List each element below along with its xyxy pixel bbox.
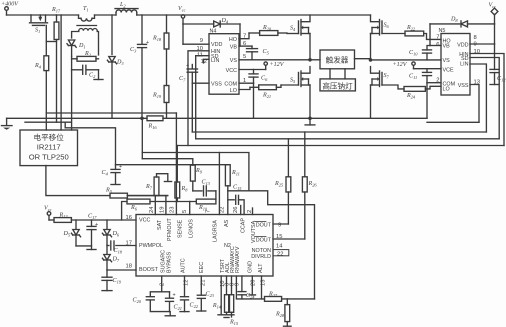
svg-text:C2: C2 (89, 73, 96, 80)
capacitor C17 (87, 214, 98, 250)
resistor R9 (190, 159, 202, 191)
wire VCE N5 (414, 68, 442, 70)
wire VSS N5 (470, 85, 479, 123)
svg-text:14: 14 (276, 244, 283, 250)
pin labels N2 top (157, 218, 257, 243)
capacitor C2 (72, 56, 99, 79)
svg-text:R9: R9 (195, 168, 203, 175)
wire VCC N4 (239, 69, 266, 71)
resistor R15 (229, 276, 239, 326)
resistor R26 riser (304, 132, 306, 177)
resistor R11 (225, 165, 239, 215)
wire S1 gate chain (45, 25, 47, 55)
svg-text:6: 6 (436, 42, 439, 48)
node +400V input (1, 2, 19, 16)
wire COM N5 (427, 83, 441, 119)
resistor R19 (152, 86, 169, 119)
svg-text:C21: C21 (174, 305, 182, 312)
transistor S7 (371, 67, 390, 87)
svg-text:24: 24 (149, 206, 155, 213)
svg-text:VS: VS (230, 58, 238, 64)
svg-text:C7: C7 (179, 76, 186, 83)
transformer T1 (72, 6, 99, 55)
wire pin2 down (150, 276, 161, 296)
resistor R27 (265, 292, 315, 302)
svg-text:R26: R26 (308, 181, 318, 188)
wire R9 line (142, 118, 193, 158)
wire SD N5 (470, 58, 499, 139)
bus com rail (427, 121, 479, 123)
svg-text:S1: S1 (35, 28, 40, 35)
svg-text:VOUTSA: VOUTSA (251, 220, 257, 243)
wire R5 to pin19 (127, 196, 167, 215)
svg-text:LIN: LIN (211, 58, 219, 64)
wire pin9b down (236, 276, 264, 299)
capacitor C13 (193, 180, 216, 200)
svg-text:R15: R15 (229, 320, 239, 327)
svg-text:AS: AS (224, 219, 230, 227)
svg-text:C11: C11 (409, 74, 417, 81)
svg-text:D5: D5 (63, 231, 71, 238)
svg-text:9: 9 (278, 223, 281, 229)
op-amp U3 controller N2 box (136, 215, 273, 277)
svg-text:VDD: VDD (211, 42, 222, 48)
transistor S1 (30, 15, 48, 34)
capacitor C5 (247, 46, 270, 60)
bus line y126 (65, 122, 115, 169)
svg-text:D6: D6 (112, 231, 120, 238)
transistor S6 (371, 15, 390, 35)
ground R28 (284, 325, 292, 327)
inductor L2 (115, 2, 371, 15)
wire HIN N4 (188, 51, 209, 146)
wire pin2b stub (252, 208, 254, 215)
svg-text:触发器: 触发器 (326, 55, 349, 65)
svg-text:EEC: EEC (199, 262, 205, 273)
pin numbers N4 right (243, 34, 246, 85)
pin numbers N4 left (197, 38, 207, 65)
svg-text:C23: C23 (206, 292, 215, 299)
svg-text:OR TLP250: OR TLP250 (29, 153, 69, 162)
wire D7 to BOOST (107, 269, 136, 271)
node Vcc left terminal (178, 6, 186, 24)
diode D1 zener (67, 40, 86, 56)
wire pin24 stub (154, 196, 156, 215)
svg-text:15: 15 (276, 234, 282, 240)
svg-text:VSS: VSS (458, 83, 469, 89)
pin numbers N2 bottom (160, 280, 267, 287)
diode D6 zener (102, 220, 120, 245)
capacitor C4 (102, 164, 123, 185)
svg-text:DOUT: DOUT (256, 223, 272, 229)
svg-text:CCAP: CCAP (241, 218, 247, 233)
svg-text:L2: L2 (119, 2, 126, 9)
op-amp U1 driver N4 box (209, 29, 239, 95)
bus line y138 (196, 138, 500, 140)
wire D3 drop (111, 15, 113, 55)
svg-text:C13: C13 (202, 180, 211, 187)
svg-text:22: 22 (277, 252, 283, 258)
svg-text:C5: C5 (263, 49, 270, 56)
svg-text:VS: VS (443, 58, 451, 64)
ground bridge (305, 117, 315, 125)
resistor R16 (147, 116, 427, 130)
svg-text:20: 20 (251, 280, 257, 286)
wire bottom node bar (218, 315, 234, 318)
svg-text:23: 23 (170, 207, 176, 213)
svg-text:+12V: +12V (393, 62, 408, 68)
wire sense line y113 (46, 112, 176, 114)
svg-text:7: 7 (206, 210, 212, 213)
svg-text:2: 2 (247, 210, 253, 213)
ground pin20 (249, 294, 255, 296)
svg-text:C6: C6 (261, 76, 268, 83)
svg-text:Vcc: Vcc (44, 206, 52, 213)
svg-text:R19: R19 (152, 93, 162, 100)
pin numbers N2 right (273, 223, 289, 258)
svg-text:C22: C22 (190, 303, 199, 310)
diode D5 zener (63, 220, 92, 246)
wire D4 to VB (239, 24, 252, 46)
svg-text:LO: LO (443, 87, 450, 93)
transistor S4 (287, 15, 310, 35)
ground rail (7, 117, 147, 119)
wire lamp sense line (116, 164, 228, 166)
svg-text:R7: R7 (145, 184, 153, 191)
svg-text:电平移位: 电平移位 (34, 132, 65, 142)
resistor R24 (382, 85, 441, 100)
svg-text:+: + (186, 63, 189, 69)
wire S4 source to VS node (308, 34, 312, 62)
wire level shifter out1 (46, 166, 110, 196)
svg-text:C10: C10 (409, 50, 418, 57)
svg-text:COM: COM (224, 82, 237, 88)
resistor R14 (212, 276, 229, 315)
svg-text:RNAWAYV: RNAWAYV (235, 246, 241, 273)
ground pin2 (165, 312, 175, 316)
pin labels N2 bottom (161, 246, 265, 273)
resistor R25 riser (287, 139, 289, 177)
resistor R25 (273, 177, 291, 224)
bus line y132 (192, 131, 486, 133)
wire pin5 stub (189, 202, 191, 215)
svg-text:D8: D8 (450, 17, 458, 24)
wire VS N4 (239, 59, 310, 61)
capacitor C20 (133, 297, 170, 312)
svg-text:9: 9 (235, 283, 241, 286)
wire HIN N5 (470, 54, 504, 146)
diode D4 (183, 18, 240, 27)
wire node to igniter (310, 59, 320, 61)
svg-text:N4: N4 (210, 29, 217, 35)
svg-text:VCC: VCC (139, 218, 150, 224)
svg-text:LGNOS: LGNOS (189, 219, 195, 238)
svg-text:D3: D3 (116, 60, 124, 67)
svg-text:T1: T1 (83, 6, 89, 13)
svg-text:+: + (173, 293, 176, 299)
svg-text:C18: C18 (114, 248, 123, 255)
svg-text:9: 9 (200, 38, 203, 44)
svg-text:R8: R8 (181, 186, 189, 193)
svg-text:高压钠灯: 高压钠灯 (322, 80, 353, 90)
svg-text:S5: S5 (290, 78, 296, 85)
wire pin21 down (200, 276, 202, 295)
svg-text:C15: C15 (233, 185, 242, 192)
wire snubber right end (94, 70, 103, 80)
svg-text:5: 5 (243, 54, 246, 60)
bus left com line (25, 121, 71, 123)
capacitor C6 (249, 70, 268, 84)
resistor R28 (275, 299, 290, 326)
wire lamp link right (344, 69, 346, 79)
svg-text:+: + (95, 222, 98, 228)
wire Vcc to VDD (183, 24, 209, 44)
svg-text:+400V: +400V (1, 2, 19, 8)
block igniter (320, 50, 355, 69)
svg-text:2: 2 (160, 283, 166, 286)
wire pin10 down (220, 276, 222, 315)
wire pin20 down (251, 276, 253, 295)
svg-text:VDD: VDD (457, 43, 468, 49)
wire D8 to VB N5 (430, 24, 441, 46)
wire VDD N5 (470, 24, 495, 44)
svg-text:DOUT: DOUT (256, 238, 272, 244)
capacitor C15 (228, 185, 244, 215)
wire snubber left to ground (71, 70, 73, 130)
wire S1 drain rail (31, 14, 57, 16)
capacitor C24 (238, 276, 255, 300)
svg-text:VB: VB (230, 45, 238, 51)
svg-text:VB: VB (443, 44, 451, 50)
wire igniter to right node (355, 58, 371, 60)
svg-text:D7: D7 (112, 257, 120, 264)
wire feedback line (142, 153, 249, 191)
resistor R22 (382, 25, 441, 39)
svg-text:R24: R24 (406, 93, 416, 100)
svg-text:C20: C20 (133, 298, 142, 305)
svg-text:R16: R16 (148, 124, 158, 131)
resistor R13 (49, 213, 136, 223)
capacitor C22 (180, 297, 199, 312)
svg-text:N5: N5 (439, 28, 446, 34)
svg-text:R17: R17 (51, 7, 61, 14)
svg-text:5: 5 (182, 210, 188, 213)
bus line y145 (177, 145, 504, 147)
svg-text:S7: S7 (384, 73, 390, 80)
wire pin7 riser (218, 153, 220, 215)
svg-text:22: 22 (220, 207, 226, 213)
capacitor C12 (490, 44, 506, 85)
wire COM N4 (239, 83, 254, 118)
resistor R10 (196, 199, 216, 212)
node Vcc2 terminal (44, 206, 52, 221)
wire pin12 down (184, 276, 186, 297)
wire rail T1 to L2 (95, 14, 117, 16)
wire rail to level shifter (60, 15, 62, 130)
svg-text:6: 6 (243, 41, 246, 47)
svg-text:C4: C4 (102, 170, 109, 177)
resistor R5 (105, 188, 168, 199)
svg-text:R21: R21 (262, 93, 271, 100)
capacitor C18 (107, 241, 136, 255)
svg-text:C19: C19 (113, 278, 122, 285)
svg-text:VCC: VCC (226, 68, 237, 74)
wire LIN N4 (204, 59, 210, 63)
wire SD N4 (196, 56, 209, 139)
resistor R21 (250, 85, 281, 99)
node +12V left (264, 62, 285, 70)
node +12V right (393, 62, 416, 69)
svg-text:26: 26 (233, 207, 239, 213)
svg-text:R4: R4 (34, 63, 42, 70)
node Vcc right terminal (489, 3, 498, 24)
svg-text:7: 7 (436, 35, 439, 41)
capacitor C19 (102, 270, 122, 291)
wire rail S1 to T1 (57, 14, 79, 16)
capacitor C21 (162, 292, 182, 312)
resistor R6 (122, 199, 197, 220)
svg-text:PFMOUT: PFMOUT (167, 218, 173, 241)
svg-text:+: + (146, 40, 149, 46)
wire LIN N5 (470, 64, 486, 132)
svg-text:R6: R6 (130, 205, 138, 212)
wire S7 source to ground rail (370, 85, 372, 118)
svg-text:BOOST: BOOST (139, 267, 159, 273)
svg-text:SAT: SAT (157, 219, 163, 230)
op-amp U2 driver N5 box (439, 28, 471, 95)
wire S5 source to ground rail (309, 85, 311, 118)
svg-text:R18: R18 (152, 36, 162, 43)
wire S6 source to node (369, 34, 373, 62)
wire snake mid (228, 191, 315, 299)
svg-text:R25: R25 (274, 181, 284, 188)
svg-text:C24: C24 (246, 293, 255, 300)
pin numbers N5 (436, 35, 480, 86)
wire pin13 down (261, 276, 263, 299)
svg-text:C17: C17 (88, 214, 97, 221)
capacitor C3 (130, 15, 149, 118)
resistor R18 (152, 15, 169, 49)
transistor S5 (281, 67, 310, 87)
svg-text:VCE: VCE (443, 68, 454, 74)
wire VS N5 (371, 59, 442, 61)
diode D8 bootstrap right (430, 17, 495, 27)
svg-text:AUTC: AUTC (181, 258, 187, 273)
resistor R26 (273, 177, 317, 239)
svg-text:ALT: ALT (258, 263, 264, 273)
resistor R8 (175, 182, 188, 202)
capacitor C10 (409, 46, 432, 60)
resistor R4 (34, 56, 49, 130)
pin numbers N2 top (149, 206, 253, 213)
wire pin23 column (175, 113, 177, 215)
wire VSS N4 (192, 72, 209, 132)
capacitor C7 (179, 63, 198, 83)
wire HO N4 to R20 (239, 33, 249, 39)
svg-text:VSS: VSS (211, 82, 222, 88)
svg-text:C3: C3 (130, 47, 137, 54)
svg-text:LIN: LIN (460, 62, 468, 68)
capacitor C23 (197, 292, 215, 312)
wire R18 to R19 (166, 49, 168, 86)
wire +400V to S1 (7, 14, 32, 16)
svg-text:19: 19 (160, 207, 166, 213)
node C3 ground junction (140, 117, 144, 121)
svg-text:HO: HO (229, 37, 237, 43)
svg-text:SENSE: SENSE (178, 219, 184, 238)
svg-text:18: 18 (126, 264, 132, 270)
svg-text:GND: GND (248, 261, 254, 273)
resistor R20 (249, 25, 287, 35)
ground left (2, 118, 13, 130)
svg-text:BYPASS: BYPASS (167, 251, 173, 273)
svg-text:PWMPOL: PWMPOL (139, 243, 163, 249)
svg-text:S4: S4 (290, 26, 296, 33)
svg-text:+12V: +12V (270, 62, 285, 68)
wire lamp link left (329, 69, 331, 79)
svg-text:R11: R11 (231, 170, 240, 177)
block level shifter (20, 130, 78, 166)
pin numbers N2 left (126, 215, 132, 270)
block HPS lamp (320, 79, 355, 91)
resistor R17 (46, 7, 61, 122)
svg-text:IR2117: IR2117 (37, 143, 61, 152)
wire R8 riser (176, 146, 178, 183)
svg-text:R28: R28 (275, 312, 285, 319)
wire LO N4 to R21 (239, 87, 250, 89)
svg-text:DIVRLD: DIVRLD (251, 254, 271, 260)
svg-text:Vcc: Vcc (178, 6, 186, 13)
diode D7 zener (102, 246, 120, 271)
svg-text:8: 8 (474, 35, 477, 41)
svg-text:LO: LO (230, 88, 237, 94)
resistor R7 (145, 174, 172, 196)
svg-text:LAGRSA: LAGRSA (213, 220, 219, 242)
svg-text:S6: S6 (384, 23, 390, 30)
svg-text:D1: D1 (78, 43, 86, 50)
capacitor C11 (409, 69, 432, 83)
resistor R2 (72, 51, 99, 61)
svg-text:R14: R14 (212, 303, 222, 310)
diode D3 zener (107, 57, 124, 119)
